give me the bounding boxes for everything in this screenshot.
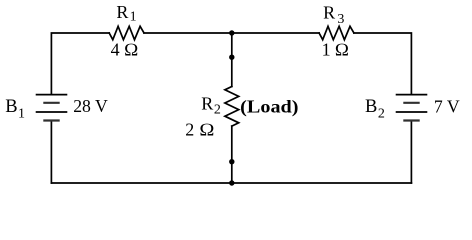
svg-text:(Load): (Load) bbox=[240, 96, 298, 117]
wire: top rail, R1 to node A bbox=[144, 32, 232, 34]
battery B1 bbox=[36, 95, 68, 121]
wire: top rail, node A to R3 bbox=[232, 32, 319, 34]
svg-text:B2: B2 bbox=[365, 97, 385, 122]
value 2 ohm bbox=[185, 120, 215, 140]
svg-text:R1: R1 bbox=[116, 2, 136, 25]
svg-text:1: 1 bbox=[322, 39, 331, 59]
node A (top junction dot) bbox=[229, 30, 234, 35]
svg-text:28 V: 28 V bbox=[73, 96, 108, 116]
wire: right rail lower (B2 negative plate to bottom-right corner) bbox=[410, 121, 412, 183]
svg-text:R3: R3 bbox=[323, 2, 344, 27]
wire: bottom rail, right segment (node B to bottom-right corner) bbox=[232, 182, 412, 184]
node: load lower terminal dot bbox=[229, 159, 234, 164]
value 1 ohm bbox=[322, 39, 350, 59]
wire: top-right segment + right rail upper (R3 to B2 positive plate) bbox=[354, 33, 412, 94]
resistor R2 bbox=[225, 87, 239, 127]
node: load upper terminal dot bbox=[229, 55, 234, 60]
svg-text:R2: R2 bbox=[201, 94, 221, 118]
node B (bottom junction dot) bbox=[229, 180, 234, 185]
svg-text:Ω: Ω bbox=[199, 120, 215, 140]
svg-text:Ω: Ω bbox=[124, 39, 139, 59]
value 4 ohm bbox=[111, 39, 139, 59]
battery B2 bbox=[396, 95, 428, 121]
wire: bottom rail, left segment (corner to node B) bbox=[51, 182, 231, 184]
wire: left rail lower (B1 negative plate to bottom-left corner) bbox=[50, 121, 52, 183]
svg-text:Ω: Ω bbox=[335, 39, 350, 59]
wire: top-left segment + left rail upper (top-left corner to B1 positive plate) bbox=[51, 33, 109, 94]
svg-text:B1: B1 bbox=[5, 97, 25, 122]
resistor R1 bbox=[109, 26, 144, 39]
svg-text:4: 4 bbox=[111, 39, 120, 59]
wire: middle branch upper (node A to load upper terminal) bbox=[231, 33, 233, 87]
svg-text:2: 2 bbox=[185, 120, 194, 140]
wire: middle branch lower (R2 to node B) bbox=[231, 126, 233, 183]
resistor R3 bbox=[319, 26, 354, 39]
svg-text:7 V: 7 V bbox=[434, 96, 460, 116]
